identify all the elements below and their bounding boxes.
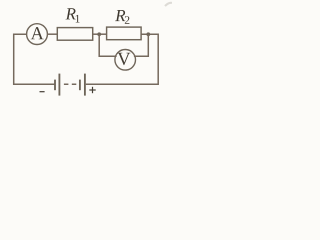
wire R2 to top-right corner and right vertical (86, 34, 158, 84)
resistor R2 (107, 27, 142, 40)
resistor R1 (57, 28, 92, 41)
label R1 (66, 8, 80, 22)
wire left vertical and bottom-left segment (14, 34, 55, 84)
node junction dot right (146, 32, 150, 36)
voltmeter V (115, 50, 136, 71)
battery cell 2 short plate (negative) (79, 80, 81, 91)
ammeter A (27, 24, 48, 45)
label R2 (115, 10, 129, 24)
wire voltmeter branch left (99, 34, 116, 56)
wire voltmeter branch right (134, 34, 148, 56)
label plus polarity (89, 87, 95, 93)
battery cell 1 long plate (positive) (58, 74, 60, 96)
wire ammeter to R1 (47, 33, 57, 35)
battery cell 1 short plate (negative) (54, 80, 56, 91)
battery cell 2 long plate (positive) (84, 74, 86, 96)
node junction dot left (97, 32, 101, 36)
wire dashed link between cells (64, 83, 76, 85)
wire R1 to R2 (93, 33, 107, 35)
label minus polarity (40, 91, 45, 93)
